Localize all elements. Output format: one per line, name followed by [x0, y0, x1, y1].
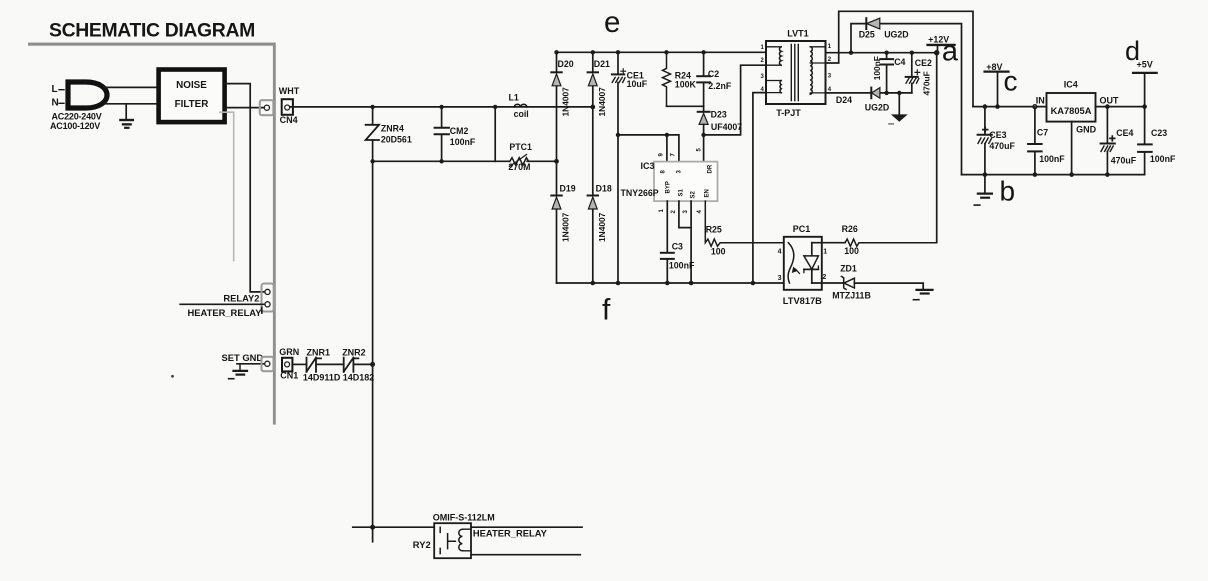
- svg-text:10uF: 10uF: [627, 79, 648, 89]
- svg-text:2.2nF: 2.2nF: [708, 81, 732, 91]
- svg-text:RY2: RY2: [413, 539, 431, 550]
- capacitor C23: [1144, 107, 1146, 145]
- svg-text:IN: IN: [1036, 95, 1045, 105]
- svg-text:FILTER: FILTER: [175, 99, 209, 110]
- capacitor CE4: [1106, 107, 1108, 144]
- wire PC1 pin2 to ZD1: [812, 282, 844, 284]
- transformer secondary winding: [810, 47, 812, 95]
- svg-text:T-PJT: T-PJT: [776, 108, 801, 118]
- wire IC3 source pins to ground rail / C3: [666, 201, 668, 253]
- wire 8V tap line: [826, 11, 974, 106]
- svg-text:L: L: [52, 84, 58, 95]
- connector CN1: [282, 358, 292, 372]
- svg-text:1N4007: 1N4007: [597, 212, 607, 242]
- connector CN4 right pin circle: [285, 105, 290, 110]
- svg-text:270M: 270M: [508, 162, 530, 172]
- relay coil: [459, 529, 463, 551]
- wire transformer pin4 to ground rail: [753, 93, 766, 283]
- diode D21: [588, 71, 598, 73]
- svg-text:C23: C23: [1151, 128, 1167, 138]
- transformer primary winding 1: [779, 47, 781, 65]
- svg-text:IC3: IC3: [641, 161, 655, 171]
- svg-text:470uF: 470uF: [922, 71, 932, 95]
- connector SET GND housing: [262, 357, 274, 371]
- varistor ZNR2: [344, 358, 359, 372]
- capacitor C7: [1034, 107, 1036, 144]
- capacitor CE2: [911, 53, 913, 77]
- svg-text:D20: D20: [558, 59, 574, 69]
- svg-text:UG2D: UG2D: [865, 103, 889, 113]
- relay RY2 box: [434, 523, 471, 558]
- wire gray from noise filter down: [220, 112, 234, 260]
- diode D18: [588, 195, 598, 197]
- noise filter box: [159, 70, 225, 123]
- wire L1 branch down: [494, 107, 496, 161]
- svg-text:AC100-120V: AC100-120V: [50, 121, 100, 131]
- ground (SET GND flag): [239, 364, 241, 371]
- connector CN4 right box: [282, 99, 293, 115]
- node ZNR2 junction dot: [370, 362, 375, 367]
- svg-text:14D182: 14D182: [343, 372, 375, 382]
- IC3 box TNY266P: [654, 162, 718, 202]
- wire drain from transformer pin2: [704, 65, 766, 135]
- diode D24: [870, 88, 872, 99]
- svg-text:CE4: CE4: [1116, 128, 1133, 138]
- wire L to noise filter: [104, 86, 159, 88]
- svg-text:TNY266P: TNY266P: [621, 188, 659, 198]
- wire SET GND: [237, 363, 265, 365]
- svg-text:KA7805A: KA7805A: [1051, 106, 1092, 116]
- svg-text:CN1: CN1: [280, 371, 298, 381]
- wire relay coil out: [471, 554, 580, 556]
- svg-text:LVT1: LVT1: [787, 28, 808, 38]
- IC3 pin numbers and names: [659, 148, 714, 214]
- capacitor CE3: [984, 107, 986, 135]
- svg-text:100nF: 100nF: [669, 260, 695, 270]
- svg-text:R25: R25: [706, 224, 722, 234]
- svg-text:CE2: CE2: [915, 58, 932, 68]
- svg-text:L1: L1: [509, 93, 519, 103]
- wire noise filter bottom output to CN4: [225, 107, 264, 109]
- svg-text:CE3: CE3: [989, 130, 1006, 140]
- wire IC4 GND stem: [1071, 122, 1073, 175]
- svg-text:100K: 100K: [675, 79, 697, 89]
- relay contact: [439, 527, 441, 553]
- capacitor CM2: [441, 107, 443, 128]
- wire 12V secondary rail: [826, 52, 937, 54]
- svg-text:20D561: 20D561: [381, 135, 412, 145]
- svg-text:100nF: 100nF: [450, 137, 476, 147]
- svg-text:ZNR1: ZNR1: [307, 348, 331, 358]
- zener ZD1: [841, 276, 846, 289]
- wire bridge leg1: [556, 52, 558, 283]
- thermistor PTC1: [510, 158, 529, 165]
- wire N to noise filter: [105, 103, 159, 105]
- svg-text:100nF: 100nF: [1150, 154, 1176, 164]
- svg-text:3: 3: [778, 275, 782, 282]
- wire ZD1 to ground: [854, 283, 923, 290]
- AC plug symbol: [68, 82, 107, 108]
- wire main rail from CN4 to bridge: [290, 106, 593, 108]
- resistor R26: [845, 239, 937, 246]
- svg-text:HEATER_RELAY: HEATER_RELAY: [188, 307, 263, 318]
- svg-text:R26: R26: [842, 224, 858, 234]
- svg-text:4: 4: [778, 248, 782, 255]
- svg-text:100nF: 100nF: [1039, 154, 1065, 164]
- svg-text:coil: coil: [514, 109, 529, 119]
- node a (+12V node): [934, 50, 939, 55]
- svg-text:d: d: [1125, 36, 1140, 66]
- varistor ZNR1: [307, 358, 322, 372]
- stray dot mark: [171, 375, 174, 378]
- node RY2 junction dot: [370, 525, 375, 530]
- svg-text:C2: C2: [708, 69, 719, 79]
- svg-text:C7: C7: [1037, 127, 1048, 137]
- opto phototransistor: [811, 243, 813, 283]
- svg-text:GRN: GRN: [279, 347, 299, 357]
- svg-text:GND: GND: [1076, 125, 1097, 135]
- capacitor CE1: [617, 52, 619, 74]
- ground (node b flag): [984, 175, 986, 194]
- wire IC4 OUT rail: [1096, 106, 1145, 108]
- svg-text:CN4: CN4: [280, 115, 298, 125]
- board border vertical gray line: [273, 43, 276, 425]
- title underline bar: [28, 43, 276, 46]
- node IN pin circle: [1033, 105, 1037, 109]
- varistor ZNR4: [372, 107, 374, 125]
- diode D25: [865, 18, 867, 29]
- wire D24 row: [826, 92, 912, 94]
- power +12V: [928, 44, 955, 46]
- ground (AC input): [119, 119, 134, 129]
- svg-text:D19: D19: [560, 183, 576, 193]
- svg-text:D24: D24: [836, 95, 852, 105]
- svg-text:1N4007: 1N4007: [561, 212, 571, 242]
- svg-text:D18: D18: [596, 183, 612, 193]
- svg-text:ZNR2: ZNR2: [342, 348, 366, 358]
- transformer LVT1 box: [766, 41, 826, 104]
- wire clamp bottom: [667, 105, 704, 107]
- wire DC+ top rail: [557, 51, 767, 53]
- opto LED: [788, 243, 794, 283]
- wire relay feed horizontal: [353, 526, 434, 528]
- svg-text:WHT: WHT: [279, 86, 300, 96]
- svg-text:HEATER_RELAY: HEATER_RELAY: [473, 528, 548, 539]
- svg-text:470uF: 470uF: [989, 141, 1015, 151]
- ground (ZD1 flag): [917, 289, 933, 291]
- connector CN4 left housing: [260, 100, 274, 115]
- svg-text:1N4007: 1N4007: [561, 87, 571, 117]
- resistor R24: [663, 52, 671, 106]
- capacitor C2: [703, 52, 705, 76]
- svg-text:S1: S1: [679, 188, 685, 196]
- svg-text:f: f: [602, 294, 611, 327]
- svg-text:OUT: OUT: [1100, 95, 1120, 105]
- transformer core lines: [791, 45, 798, 101]
- svg-text:1N4007: 1N4007: [597, 87, 607, 117]
- svg-text:EN: EN: [705, 189, 711, 197]
- ground (secondary solid): [898, 93, 900, 114]
- svg-text:UG2D: UG2D: [884, 29, 908, 39]
- node main rail dots: [370, 105, 595, 110]
- svg-text:SET GND: SET GND: [222, 352, 264, 363]
- wire relay contact out: [471, 526, 582, 528]
- svg-text:D21: D21: [594, 59, 610, 69]
- svg-text:ZNR4: ZNR4: [381, 124, 404, 134]
- transformer pin numbers: [761, 44, 832, 93]
- svg-text:S2: S2: [691, 190, 697, 198]
- svg-text:DR: DR: [708, 164, 714, 173]
- svg-text:OMIF-S-112LM: OMIF-S-112LM: [433, 512, 495, 522]
- wire +12V down to R26: [936, 53, 938, 243]
- optocoupler PC1 box: [784, 237, 822, 290]
- svg-text:+8V: +8V: [986, 62, 1002, 72]
- wire ZNR2 to long vertical: [353, 363, 372, 365]
- svg-text:PTC1: PTC1: [509, 142, 532, 152]
- wire noise filter top output down to relay pin: [225, 84, 265, 292]
- svg-text:BYP: BYP: [666, 181, 672, 193]
- connector CN4 left pin circle: [264, 105, 269, 110]
- power +8V: [985, 70, 1009, 72]
- svg-text:MTZJ11B: MTZJ11B: [832, 291, 871, 301]
- svg-text:C3: C3: [672, 241, 683, 251]
- power +5V: [1133, 72, 1157, 74]
- svg-text:e: e: [604, 6, 620, 39]
- wire long vertical to relay: [372, 161, 374, 542]
- svg-text:a: a: [942, 35, 959, 67]
- svg-text:100: 100: [844, 246, 859, 256]
- svg-text:CM2: CM2: [450, 126, 469, 136]
- connector RELAY2 pin circles: [265, 289, 270, 294]
- connector RELAY2 housing: [262, 284, 274, 312]
- wire rail2: [373, 160, 557, 162]
- svg-text:IC4: IC4: [1064, 80, 1078, 90]
- svg-text:D23: D23: [711, 110, 727, 120]
- wire ground branch: [125, 104, 127, 119]
- diode D20: [551, 71, 561, 73]
- svg-text:c: c: [1004, 65, 1018, 96]
- svg-text:ZD1: ZD1: [840, 263, 857, 273]
- wire bridge leg2: [592, 52, 594, 283]
- regulator IC4 box: [1047, 93, 1096, 122]
- svg-text:D25: D25: [859, 29, 875, 39]
- svg-text:C4: C4: [894, 57, 905, 67]
- svg-text:100nF: 100nF: [872, 56, 882, 80]
- svg-text:b: b: [1000, 175, 1016, 206]
- capacitor C4: [886, 53, 888, 59]
- svg-text:1: 1: [823, 248, 827, 255]
- wire D25 branch: [851, 24, 962, 175]
- resistor R25: [705, 201, 788, 246]
- transformer primary winding 2: [780, 81, 781, 93]
- svg-text:470uF: 470uF: [1111, 156, 1137, 166]
- svg-text:14D911D: 14D911D: [303, 372, 341, 382]
- wire PC1 pin1 to R26: [812, 242, 845, 244]
- svg-text:100: 100: [711, 247, 726, 257]
- svg-text:2: 2: [822, 274, 826, 281]
- wire ZNR1 to ZNR2: [316, 363, 344, 365]
- transformer winding lead brackets: [766, 47, 781, 93]
- wire CN1 to ZNR1: [292, 363, 306, 365]
- wire HEATER_RELAY net: [180, 303, 265, 305]
- capacitor C3: [661, 252, 674, 254]
- wire 8V rail to IC4 IN: [973, 106, 1047, 108]
- svg-text:N: N: [52, 98, 59, 109]
- wire primary ground rail: [557, 282, 789, 284]
- svg-text:LTV817B: LTV817B: [783, 296, 822, 306]
- wire source rail CE1 to IC3: [618, 135, 679, 162]
- diode D19: [551, 195, 561, 197]
- wire IC3 pin8 stub: [666, 135, 668, 162]
- svg-text:RELAY2: RELAY2: [223, 292, 259, 303]
- diode D23: [703, 106, 705, 111]
- svg-text:UF4007: UF4007: [711, 122, 742, 132]
- svg-text:SCHEMATIC DIAGRAM: SCHEMATIC DIAGRAM: [49, 20, 255, 42]
- svg-text:PC1: PC1: [793, 224, 811, 234]
- svg-text:NOISE: NOISE: [176, 80, 207, 91]
- inductor L1: [514, 104, 527, 107]
- wire secondary ground rail: [962, 174, 1145, 176]
